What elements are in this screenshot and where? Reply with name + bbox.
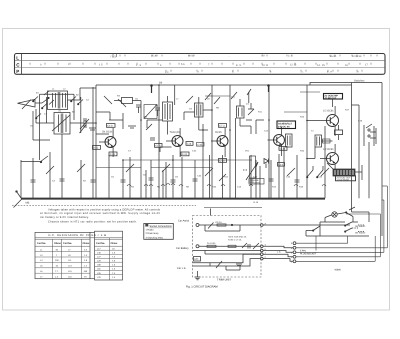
wire vertical bus x307 — [306, 85, 308, 198]
switch symbol mid left — [21, 156, 48, 163]
svg-text:8 . 9: 8 . 9 — [236, 64, 241, 67]
svg-text:1.5: 1.5 — [112, 252, 116, 255]
wire vertical drop x151 — [150, 160, 152, 198]
value box right of T2 — [186, 142, 193, 146]
wire vertical drop x297 — [296, 155, 298, 198]
wire horizontal segment upper mid3 — [284, 111, 307, 113]
svg-text:L3: L3 — [40, 254, 43, 257]
wire car aerial line — [199, 225, 261, 231]
svg-text:L.S.: L.S. — [277, 251, 281, 254]
wire vertical drop x251 — [250, 155, 252, 198]
svg-text:R11: R11 — [258, 111, 263, 114]
wire vertical right x382 — [381, 83, 383, 237]
svg-text:7.4: 7.4 — [112, 272, 116, 275]
svg-text:Socket Connections: Socket Connections — [150, 225, 173, 228]
svg-text:85 90.: 85 90. — [330, 55, 337, 58]
coil resistance table frame — [35, 231, 123, 280]
transistor T3 second IF — [211, 128, 228, 157]
svg-text:1.4: 1.4 — [84, 254, 88, 257]
svg-text:17: 17 — [365, 63, 368, 66]
svg-text:C1: C1 — [44, 113, 48, 116]
svg-text:C: C — [16, 62, 20, 67]
dial scale outer frame — [15, 54, 386, 75]
wire vertical drop x109 — [108, 155, 110, 198]
aerial coil transformer box — [48, 91, 68, 110]
wire vertical bus x159 — [158, 85, 160, 198]
svg-text:1.4: 1.4 — [55, 275, 59, 278]
battery line choke L31 — [228, 243, 247, 248]
electrolytic C12 — [237, 99, 245, 126]
svg-text:1: 1 — [291, 260, 293, 263]
svg-text:1.3: 1.3 — [112, 268, 116, 271]
interstage bias box — [323, 125, 343, 143]
svg-text:R9: R9 — [216, 107, 220, 110]
aerial trimmer switch contacts — [42, 91, 54, 105]
svg-text:5 6: 5 6 — [181, 63, 185, 66]
wire input mesh left column — [33, 87, 93, 160]
oscillator coil transformer box — [52, 113, 70, 135]
svg-text:L2: L2 — [63, 88, 66, 91]
dial scale letter box column — [21, 54, 23, 74]
wire top supply rail — [96, 84, 352, 86]
svg-text:4: 4 — [291, 247, 293, 250]
output transformer hatched box — [327, 163, 355, 176]
svg-text:2N OC44: 2N OC44 — [102, 131, 113, 134]
wire vertical drop x256 — [255, 160, 257, 198]
wire vertical drop x209 — [209, 155, 211, 198]
svg-text:R17: R17 — [345, 109, 350, 112]
resistor diagonal left mid — [80, 125, 97, 134]
bias rail horizontal — [96, 167, 212, 169]
battery terminal circle — [196, 245, 199, 248]
wire car LS lines — [193, 254, 261, 270]
ground bus (thick chassis rail) — [21, 198, 325, 200]
svg-text:VOL: VOL — [245, 150, 250, 153]
wire output stage links — [307, 99, 362, 180]
svg-text:2 Dash lamp: 2 Dash lamp — [146, 232, 160, 235]
svg-text:5: 5 — [291, 242, 293, 245]
rf stage capacitor C2 — [136, 105, 141, 113]
svg-text:R10: R10 — [212, 186, 217, 189]
svg-text:L9: L9 — [207, 98, 210, 101]
table row lines right subtable — [95, 250, 123, 274]
svg-text:40 50: 40 50 — [188, 54, 195, 57]
value box below T1 — [109, 152, 117, 156]
svg-text:.: . — [60, 71, 61, 74]
tiny value labels mid schematic — [117, 95, 363, 153]
svg-text:0·65: 0·65 — [93, 147, 98, 150]
svg-text:7.7: 7.7 — [55, 270, 59, 273]
trim unit note text — [228, 235, 247, 241]
diode D2 near volume — [264, 159, 269, 169]
tuning capacitor C1 — [80, 118, 96, 129]
neutralising cap C7 — [150, 138, 155, 140]
svg-text:10: 10 — [56, 265, 59, 268]
value box below T3 — [219, 159, 227, 163]
switch contact marks input area — [33, 97, 84, 119]
IF transformer IFT1 — [163, 96, 173, 127]
label box output pair (black border) — [324, 94, 343, 100]
svg-text:FUSE 2 LT 4A: FUSE 2 LT 4A — [228, 238, 242, 241]
svg-text:B9: B9 — [159, 82, 163, 85]
svg-text:D.C. RESISTANCE OF COILS < 1: D.C. RESISTANCE OF COILS < 1 Ω — [49, 234, 107, 237]
wire vertical drop x260 — [259, 166, 261, 198]
svg-text:OC45: OC45 — [215, 131, 222, 134]
svg-text:Coil No.: Coil No. — [96, 242, 105, 245]
driver transformer T-D — [315, 135, 322, 147]
resistor arrows upper mid — [205, 89, 251, 104]
svg-text:L17: L17 — [97, 247, 101, 250]
svg-text:C·18: C·18 — [280, 148, 286, 151]
svg-text:L9: L9 — [68, 254, 71, 257]
rail junction stub x151 — [151, 85, 153, 93]
dial scale row C tick lines — [30, 63, 371, 65]
svg-text:Chassis shown in HT1 car: Chassis shown in HT1 car radio position:… — [48, 221, 137, 224]
interference caps battery line — [248, 243, 259, 249]
dial scale row P tick lines — [166, 70, 362, 72]
inter-unit link line — [204, 207, 262, 209]
svg-text:1/2 OC81: 1/2 OC81 — [323, 109, 334, 112]
svg-text:R15: R15 — [300, 116, 305, 119]
svg-text:2. 4.: 2. 4. — [288, 55, 293, 58]
transistor T5 output upper — [320, 106, 339, 136]
svg-text:3.4: 3.4 — [84, 248, 88, 251]
wire vertical drop x62 lower — [61, 160, 63, 198]
wire plug to right risers — [296, 243, 387, 261]
svg-text:C9: C9 — [175, 176, 179, 179]
svg-text:1.4: 1.4 — [112, 276, 116, 279]
pilot lamp symbol — [325, 212, 346, 218]
svg-text:1.2: 1.2 — [84, 265, 88, 268]
svg-text:WB90: WB90 — [335, 268, 342, 271]
rail junction stub x268 — [268, 85, 270, 92]
wire vertical drop x235 — [235, 118, 237, 198]
wire rf mid links — [96, 112, 123, 134]
socket connections legend box — [144, 224, 174, 240]
svg-text:L5: L5 — [40, 265, 43, 268]
svg-text:3 Switching relay: 3 Switching relay — [146, 237, 164, 240]
trim unit terminal circles right edge — [261, 224, 264, 260]
svg-text:C14: C14 — [264, 130, 269, 133]
value box above T1 — [107, 124, 116, 128]
svg-text:. 4: . 4 — [196, 70, 199, 73]
svg-text:R8: R8 — [186, 186, 190, 189]
label box output rating (black) — [336, 176, 356, 182]
svg-text:TRIM UNIT: TRIM UNIT — [217, 278, 231, 282]
wire vertical drop x163 — [162, 170, 164, 198]
svg-text:L6: L6 — [40, 270, 43, 273]
svg-text:R2: R2 — [83, 180, 87, 183]
svg-text:7 1/2: 7 1/2 — [110, 56, 116, 59]
svg-text:L7: L7 — [40, 275, 43, 278]
table header row — [37, 242, 118, 245]
trim unit entry stub — [210, 209, 212, 216]
svg-text:C9: C9 — [189, 108, 193, 111]
value box right of T4 — [278, 163, 285, 167]
svg-text:C·49: C·49 — [110, 153, 116, 156]
trim unit dashed enclosure — [193, 216, 262, 278]
svg-text:L27: L27 — [97, 256, 101, 259]
svg-text:16: 16 — [345, 64, 348, 67]
svg-text:Ohms: Ohms — [83, 242, 90, 245]
svg-text:R18: R18 — [299, 186, 304, 189]
svg-text:L1: L1 — [52, 88, 55, 91]
svg-text:T2: T2 — [311, 130, 314, 133]
wire links trim unit to plug — [263, 225, 350, 261]
dial scale row P tick marks and figures — [60, 70, 359, 73]
wire vertical drop x141 — [140, 155, 142, 198]
tiny value labels lower drops — [52, 174, 323, 189]
svg-text:P: P — [16, 69, 19, 74]
value box left of T2 — [155, 144, 163, 148]
volume control potentiometer — [243, 156, 258, 180]
svg-text:C11: C11 — [231, 96, 236, 99]
wire vertical bus x212 — [211, 85, 213, 198]
transistor T4 AF driver — [268, 127, 285, 156]
value box VC1 left of T1 — [93, 146, 101, 150]
volume control label box — [249, 179, 264, 185]
svg-text:70: 70 — [262, 55, 265, 58]
svg-text:C6: C6 — [135, 98, 139, 101]
svg-text:B·15: B·15 — [254, 201, 259, 204]
wire vertical bus x269 — [268, 85, 270, 198]
dial scale row L tick marks and figures — [110, 54, 362, 59]
wire vertical drop x271 — [270, 160, 272, 198]
svg-text:1 5: 1 5 — [99, 64, 103, 67]
svg-text:C8: C8 — [155, 105, 159, 108]
svg-text:at minimum, no signal input: at minimum, no signal input and receiver… — [40, 212, 160, 215]
svg-text:C7·3: C7·3 — [219, 125, 225, 128]
aerial line choke — [215, 221, 226, 226]
AGC line long horizontal — [123, 159, 250, 161]
junction dots — [95, 84, 308, 161]
svg-text:C16: C16 — [286, 176, 291, 179]
svg-text:HT1: HT1 — [194, 258, 199, 261]
wire vertical drop x62 — [61, 134, 63, 160]
terminal numbers right edge — [265, 222, 267, 259]
detector diode cluster — [246, 103, 254, 120]
wire vertical drop x325 — [324, 126, 326, 198]
table row lines left — [35, 252, 90, 274]
svg-text:10 11: 10 11 — [262, 64, 269, 67]
svg-text:C16: C16 — [187, 143, 192, 146]
svg-text:. 7 .: . 7 . — [300, 71, 304, 74]
svg-text:R5: R5 — [144, 116, 148, 119]
capacitor symbols on lower drops — [121, 178, 300, 182]
wire vertical drop x279 — [278, 154, 280, 198]
label on radio — [355, 225, 366, 234]
svg-text:3 0: 3 0 — [165, 71, 169, 74]
svg-text:2-B OC 44: 2-B OC 44 — [278, 126, 290, 129]
dash lamp switch arm — [346, 207, 356, 222]
svg-text:30: 30 — [56, 248, 59, 251]
svg-text:Fig. 1 CIRCUIT DIAGRAM: Fig. 1 CIRCUIT DIAGRAM — [186, 286, 218, 289]
svg-text:C1·4: C1·4 — [155, 145, 161, 148]
svg-text:R3: R3 — [117, 95, 121, 98]
svg-text:L81: L81 — [97, 268, 101, 271]
wire car battery line — [193, 246, 262, 254]
AGC resistor R5 — [128, 124, 152, 130]
svg-text:7: 7 — [208, 63, 210, 66]
svg-text:ON RADIO: ON RADIO — [355, 225, 366, 228]
svg-text:8 . 9: 8 . 9 — [327, 70, 332, 73]
table title underline — [35, 237, 123, 239]
svg-text:C19: C19 — [358, 120, 363, 123]
svg-text:6: 6 — [270, 70, 272, 73]
svg-text:L: L — [16, 55, 19, 60]
resistor slash symbols on lower drops — [46, 164, 329, 181]
svg-text:.: . — [105, 70, 106, 73]
wire vertical drop x195 — [194, 160, 196, 198]
wire second IF links — [184, 110, 212, 130]
svg-text:2: 2 — [291, 256, 293, 259]
car aerial input terminal — [196, 224, 199, 227]
wire vertical drop x81 — [80, 160, 82, 198]
wire vertical drop x130 — [129, 157, 131, 198]
wire vertical drop x166 — [165, 162, 167, 198]
IF transformer IFT2 — [195, 97, 204, 124]
wire top rail right jog — [310, 83, 382, 86]
svg-text:10: 10 — [112, 247, 115, 250]
table data cells — [40, 247, 116, 279]
five pin plug numbers — [291, 242, 293, 263]
value box left of T3 — [197, 143, 205, 147]
svg-text:C5: C5 — [111, 176, 115, 179]
value box below T2 — [181, 152, 189, 156]
svg-text:C4·8: C4·8 — [107, 125, 113, 128]
LS line resistor — [216, 261, 242, 268]
svg-text:L35: L35 — [97, 272, 101, 275]
svg-text:PLUG/SOCKET: PLUG/SOCKET — [300, 253, 317, 256]
wire tuning gang links — [36, 88, 96, 123]
chassis switch arm lower left — [14, 191, 23, 208]
svg-text:L20: L20 — [97, 276, 101, 279]
svg-text:25 30: 25 30 — [151, 55, 158, 58]
svg-text:Switches: Switches — [354, 80, 365, 83]
svg-text:2A FUSE: 2A FUSE — [207, 242, 216, 245]
trim unit ground symbol — [195, 271, 201, 280]
wire right risers vertical — [316, 186, 387, 261]
svg-text:1: 1 — [68, 63, 70, 66]
svg-text:C7: C7 — [128, 150, 132, 153]
svg-text:R14: R14 — [272, 186, 277, 189]
wire vertical drop x123 — [122, 160, 124, 198]
battery line fuse — [207, 242, 216, 247]
wire IF stage links — [141, 101, 172, 156]
svg-text:0: 0 — [40, 63, 42, 66]
svg-text:5 .: 5 . — [232, 71, 235, 74]
svg-text:4: 4 — [160, 64, 162, 67]
svg-text:L16: L16 — [68, 275, 72, 278]
svg-text:R12: R12 — [224, 176, 229, 179]
on radio switch cluster — [345, 222, 365, 232]
IFT1 screen box — [144, 105, 157, 119]
svg-text:14 . 15: 14 . 15 — [317, 64, 325, 67]
transistor T1 mixer — [99, 128, 116, 157]
wire vertical drop x182 — [181, 157, 183, 198]
label 5 pin plug socket — [300, 249, 317, 255]
svg-text:41 PP OUT: 41 PP OUT — [325, 97, 337, 100]
wire vertical drop x222 — [222, 155, 224, 198]
dial scale row separator C/P — [15, 67, 385, 69]
svg-text:1 Radio: 1 Radio — [146, 228, 155, 231]
capacitor marks left drops — [31, 179, 96, 182]
rail drop x174 — [175, 85, 193, 105]
svg-text:Car Aerial: Car Aerial — [178, 219, 189, 222]
wire vertical drop x21 — [20, 160, 22, 198]
svg-text:250: 250 — [55, 259, 59, 262]
svg-text:L7: L7 — [68, 248, 71, 251]
svg-text:160: 160 — [84, 270, 88, 273]
svg-text:7: 7 — [56, 254, 58, 257]
svg-text:L11: L11 — [68, 259, 72, 262]
svg-text:C10: C10 — [197, 175, 202, 178]
svg-text:TAKE CAR AND 4A: TAKE CAR AND 4A — [228, 235, 247, 238]
wire horizontal segment upper mid1 — [205, 95, 230, 97]
table column separators — [35, 238, 123, 280]
driver transformer — [286, 134, 293, 147]
svg-text:3: 3 — [291, 251, 293, 254]
headphone jack components right — [364, 124, 376, 146]
svg-text:2 . 3: 2 . 3 — [136, 64, 141, 67]
value box above T3 — [219, 124, 227, 128]
wire vertical drop x284 — [283, 147, 285, 198]
svg-text:C20: C20 — [318, 176, 323, 179]
svg-text:L30 2A: L30 2A — [215, 221, 222, 224]
wire horizontal segment upper mid2 — [300, 91, 320, 93]
svg-text:B1: B1 — [36, 92, 39, 95]
wire vertical drop x203 — [202, 124, 204, 198]
transistor T6 output lower — [320, 144, 339, 170]
svg-text:ON RADIO: ON RADIO — [355, 232, 366, 235]
svg-text:12 13: 12 13 — [290, 64, 297, 67]
svg-text:5 PIN: 5 PIN — [300, 249, 306, 252]
transistor T2 first IF — [166, 128, 183, 157]
HT label box — [194, 257, 201, 262]
wire vertical drop x50 — [49, 152, 51, 198]
svg-text:Coil No.: Coil No. — [63, 242, 72, 245]
svg-text:70: 70 — [84, 275, 87, 278]
svg-text:Ohms: Ohms — [111, 242, 118, 245]
svg-text:MB: MB — [26, 201, 30, 204]
wire vertical drop x173 — [172, 155, 174, 198]
svg-text:.01: .01 — [58, 110, 62, 113]
wire switch cluster links — [320, 212, 369, 236]
svg-text:L4: L4 — [40, 259, 43, 262]
dial scale row separator L/C — [15, 60, 385, 62]
aerial line trimmer arrow — [208, 223, 233, 229]
svg-text:C3: C3 — [52, 180, 56, 183]
svg-text:L13: L13 — [68, 265, 72, 268]
coil curl marks on drops — [127, 184, 326, 187]
svg-text:7.4: 7.4 — [112, 256, 116, 259]
ignition switch left — [306, 222, 320, 236]
voltages note paragraph — [40, 208, 161, 223]
svg-text:Voltages taken with respect: Voltages taken with respect to positive … — [48, 208, 161, 211]
svg-text:R16: R16 — [300, 150, 305, 153]
svg-text:L1: L1 — [40, 248, 43, 251]
on-off switch arms on pot — [307, 166, 324, 178]
IFT1 tuning cap — [155, 108, 160, 116]
wire vertical bus x96 — [95, 85, 97, 198]
svg-text:B3: B3 — [72, 111, 75, 114]
svg-text:car battery or 9-0V intern: car battery or 9-0V internal battery. — [40, 216, 89, 219]
dial scale row L tick lines — [120, 55, 377, 57]
svg-text:C·23: C·23 — [182, 153, 188, 156]
svg-text:. .: . . — [228, 55, 230, 58]
svg-text:R6: R6 — [157, 186, 161, 189]
svg-text:L40: L40 — [97, 252, 101, 255]
